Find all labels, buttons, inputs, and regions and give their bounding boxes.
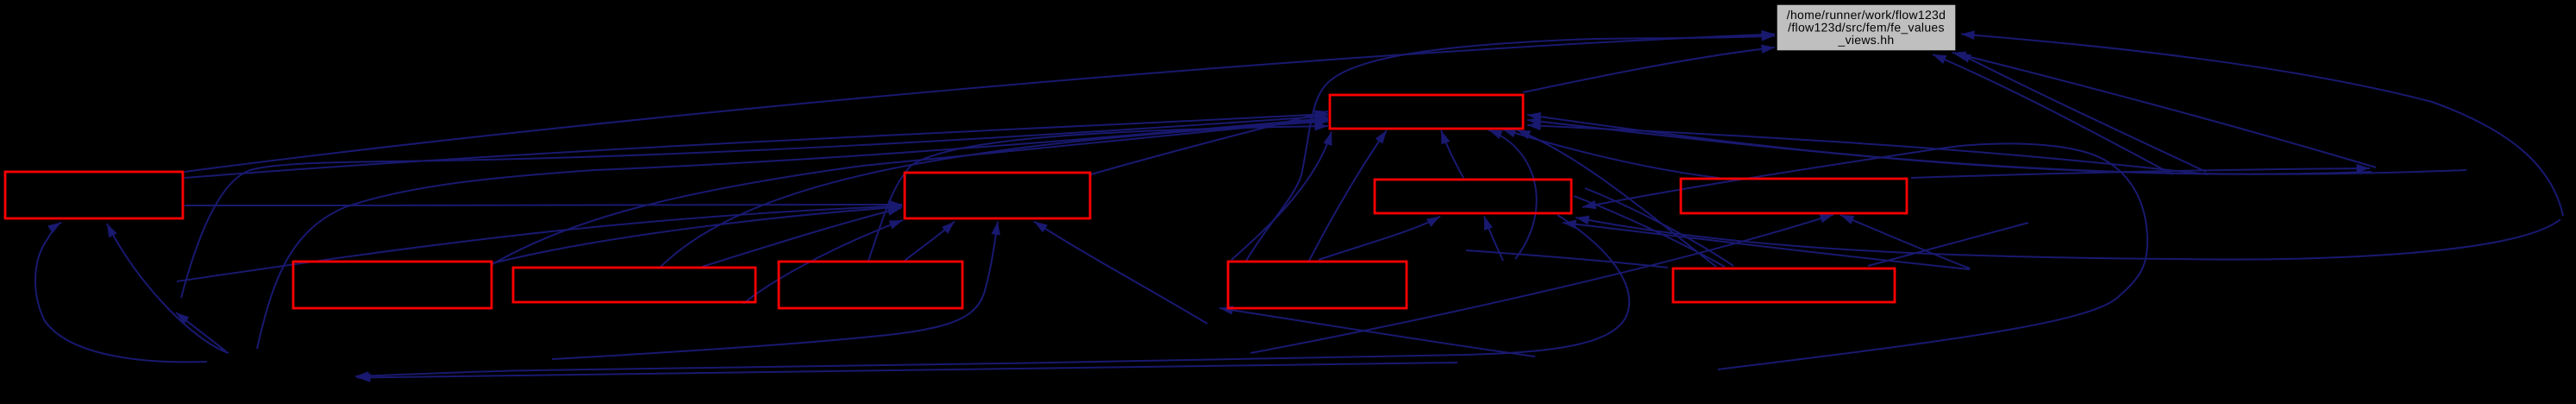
wire N4 to B bottom (left U loop) bbox=[35, 223, 207, 363]
wire into K top edge (parallel 1) bbox=[1574, 196, 1725, 267]
wire I to hub G bottom bbox=[1309, 130, 1387, 261]
wire from up-right into K corner bbox=[1868, 223, 2028, 266]
wire N1 to N2 (short) bbox=[176, 312, 226, 351]
wire B to F left edge (2) bbox=[177, 206, 902, 282]
wire F to hub G bbox=[1091, 111, 1328, 174]
wire X8 to F bottom bbox=[1034, 222, 1207, 325]
node root grey: /home/runner/work/flow123d/flow123d/src/fem/fe_values_views.hh bbox=[1777, 4, 1956, 51]
node H (truncated, red) bbox=[1375, 180, 1571, 213]
wire J to far-right node X1 bbox=[1911, 168, 2370, 178]
wire D to hub G (1) bbox=[661, 122, 1328, 268]
wire to K top right corner bbox=[1466, 250, 1668, 268]
wire invisible node to H bottom bbox=[1484, 217, 1503, 262]
wire E to F bottom bbox=[905, 222, 955, 262]
wire D to F left edge bbox=[702, 208, 901, 267]
wire X6 to H corner bbox=[1563, 223, 1970, 269]
wire X1 to grey root bottom bbox=[1952, 53, 2376, 167]
wire B to hub G bbox=[185, 114, 1328, 178]
wire I to H bottom bbox=[1319, 217, 1440, 261]
wire C to F left edge bbox=[492, 207, 902, 264]
wire X5 loop to H corner (inner right loop) bbox=[1583, 143, 2147, 369]
wire H to hub G bbox=[1441, 130, 1463, 178]
wire E to hub G bbox=[868, 126, 1328, 261]
node C (truncated, red) bbox=[293, 262, 492, 308]
wire second bottom feeder into N4 bbox=[357, 363, 1457, 378]
node J (truncated, red) bbox=[1681, 179, 1907, 213]
node B (truncated, red) bbox=[5, 172, 183, 218]
wire far-right node to grey root right edge (loop top) bbox=[1961, 35, 2563, 217]
wire C to hub G bbox=[492, 120, 1328, 265]
wire far-right node to hub G right edge (1) bbox=[1527, 115, 2466, 174]
wire X7 to J bottom bbox=[1250, 215, 1833, 354]
svg-text:_views.hh: _views.hh bbox=[1838, 33, 1895, 47]
wire far-right node to hub G right edge (3) bbox=[1527, 125, 2208, 174]
wire big curve from H down along bottom into invisible node N4 bbox=[355, 215, 1629, 376]
wire far-right node to H corner (loop bottom) bbox=[1576, 218, 2560, 260]
wire N1 to B bottom bbox=[107, 224, 229, 353]
wire X6 to J bottom bbox=[1840, 215, 1970, 268]
wire into K top edge (parallel 2) bbox=[1585, 188, 1733, 266]
node G hub (truncated, red) bbox=[1330, 95, 1523, 129]
node I (truncated, red) bbox=[1228, 262, 1407, 308]
wire invisible node to hub G bottom bbox=[1489, 130, 1537, 260]
wire K to hub G bbox=[1517, 130, 1716, 268]
node K (truncated, red) bbox=[1673, 268, 1895, 302]
wire far-right node to hub G right edge (2) bbox=[1527, 120, 2372, 174]
wire hub G to grey root bbox=[1523, 47, 1775, 92]
wire bottom node N3 to hub G (sweeping curve) bbox=[257, 118, 1328, 349]
node D (truncated, red) bbox=[513, 268, 755, 302]
node F (truncated, red) bbox=[905, 173, 1090, 218]
wire B to grey root (long flat curve) bbox=[185, 35, 1775, 173]
wire I to grey root (curve over hub) bbox=[1246, 36, 1775, 262]
wire X5 to I bottom-left bbox=[1219, 308, 1535, 357]
wire B to F left edge (1) bbox=[185, 205, 902, 205]
wire I to hub G bottom-left corner bbox=[1232, 132, 1332, 261]
wire bottom node N2 to hub G (steep then flat curve) bbox=[181, 117, 1328, 299]
wire bottom-left to F bottom-left corner bbox=[743, 220, 903, 304]
wire J to hub G bbox=[1502, 129, 1719, 179]
wire X2 to grey root bottom-right corner bbox=[1958, 53, 2206, 172]
wire bottom node N1 to F bottom (long bottom curve) bbox=[552, 222, 998, 360]
wire X3 to grey root bottom bbox=[1933, 54, 2172, 174]
node E (truncated, red) bbox=[779, 262, 962, 308]
